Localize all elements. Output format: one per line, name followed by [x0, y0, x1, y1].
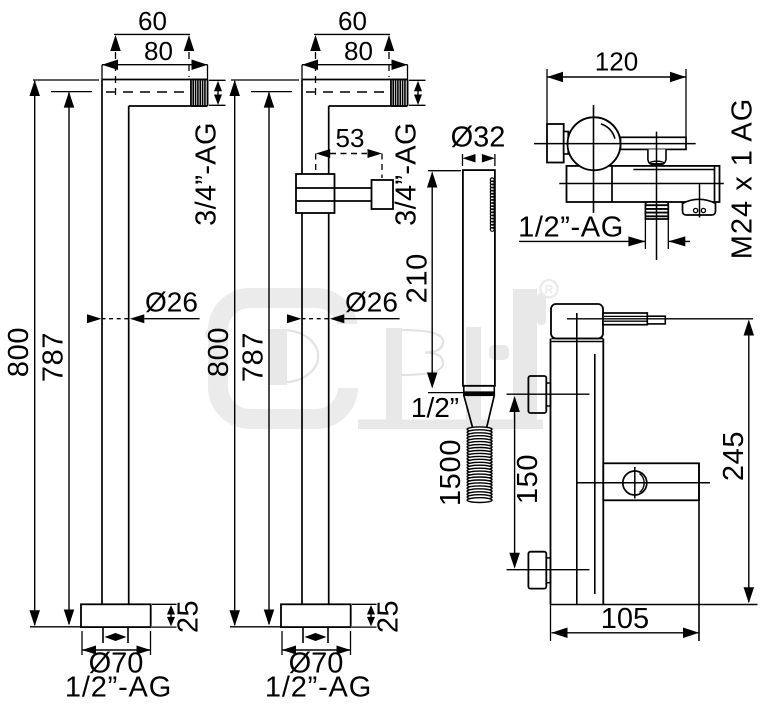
svg-text:Ø32: Ø32 [451, 122, 506, 154]
svg-text:245: 245 [718, 431, 750, 481]
svg-text:800: 800 [3, 327, 35, 377]
svg-text:25: 25 [373, 600, 405, 633]
svg-text:1/2”: 1/2” [411, 392, 459, 423]
svg-text:M24 x 1 AG: M24 x 1 AG [727, 98, 759, 260]
svg-text:800: 800 [203, 327, 235, 377]
svg-text:105: 105 [601, 603, 649, 635]
svg-text:80: 80 [144, 36, 173, 66]
svg-text:1/2”-AG: 1/2”-AG [518, 211, 624, 243]
svg-text:150: 150 [512, 454, 544, 504]
svg-text:210: 210 [402, 253, 434, 303]
svg-text:Ø26: Ø26 [145, 287, 198, 318]
svg-text:1/2”-AG: 1/2”-AG [65, 672, 172, 704]
svg-text:787: 787 [238, 332, 270, 382]
svg-text:25: 25 [173, 600, 205, 633]
svg-text:1/2”-AG: 1/2”-AG [265, 672, 372, 704]
svg-text:80: 80 [344, 36, 373, 66]
svg-text:3/4”-AG: 3/4”-AG [191, 122, 223, 226]
svg-text:60: 60 [138, 6, 167, 36]
svg-text:787: 787 [38, 332, 70, 382]
svg-text:Ø26: Ø26 [345, 287, 398, 318]
svg-text:1500: 1500 [435, 439, 467, 506]
svg-text:120: 120 [595, 47, 638, 77]
svg-text:53: 53 [336, 123, 365, 153]
svg-text:60: 60 [338, 6, 367, 36]
svg-text:R: R [545, 283, 554, 297]
svg-text:3/4”-AG: 3/4”-AG [391, 122, 423, 226]
